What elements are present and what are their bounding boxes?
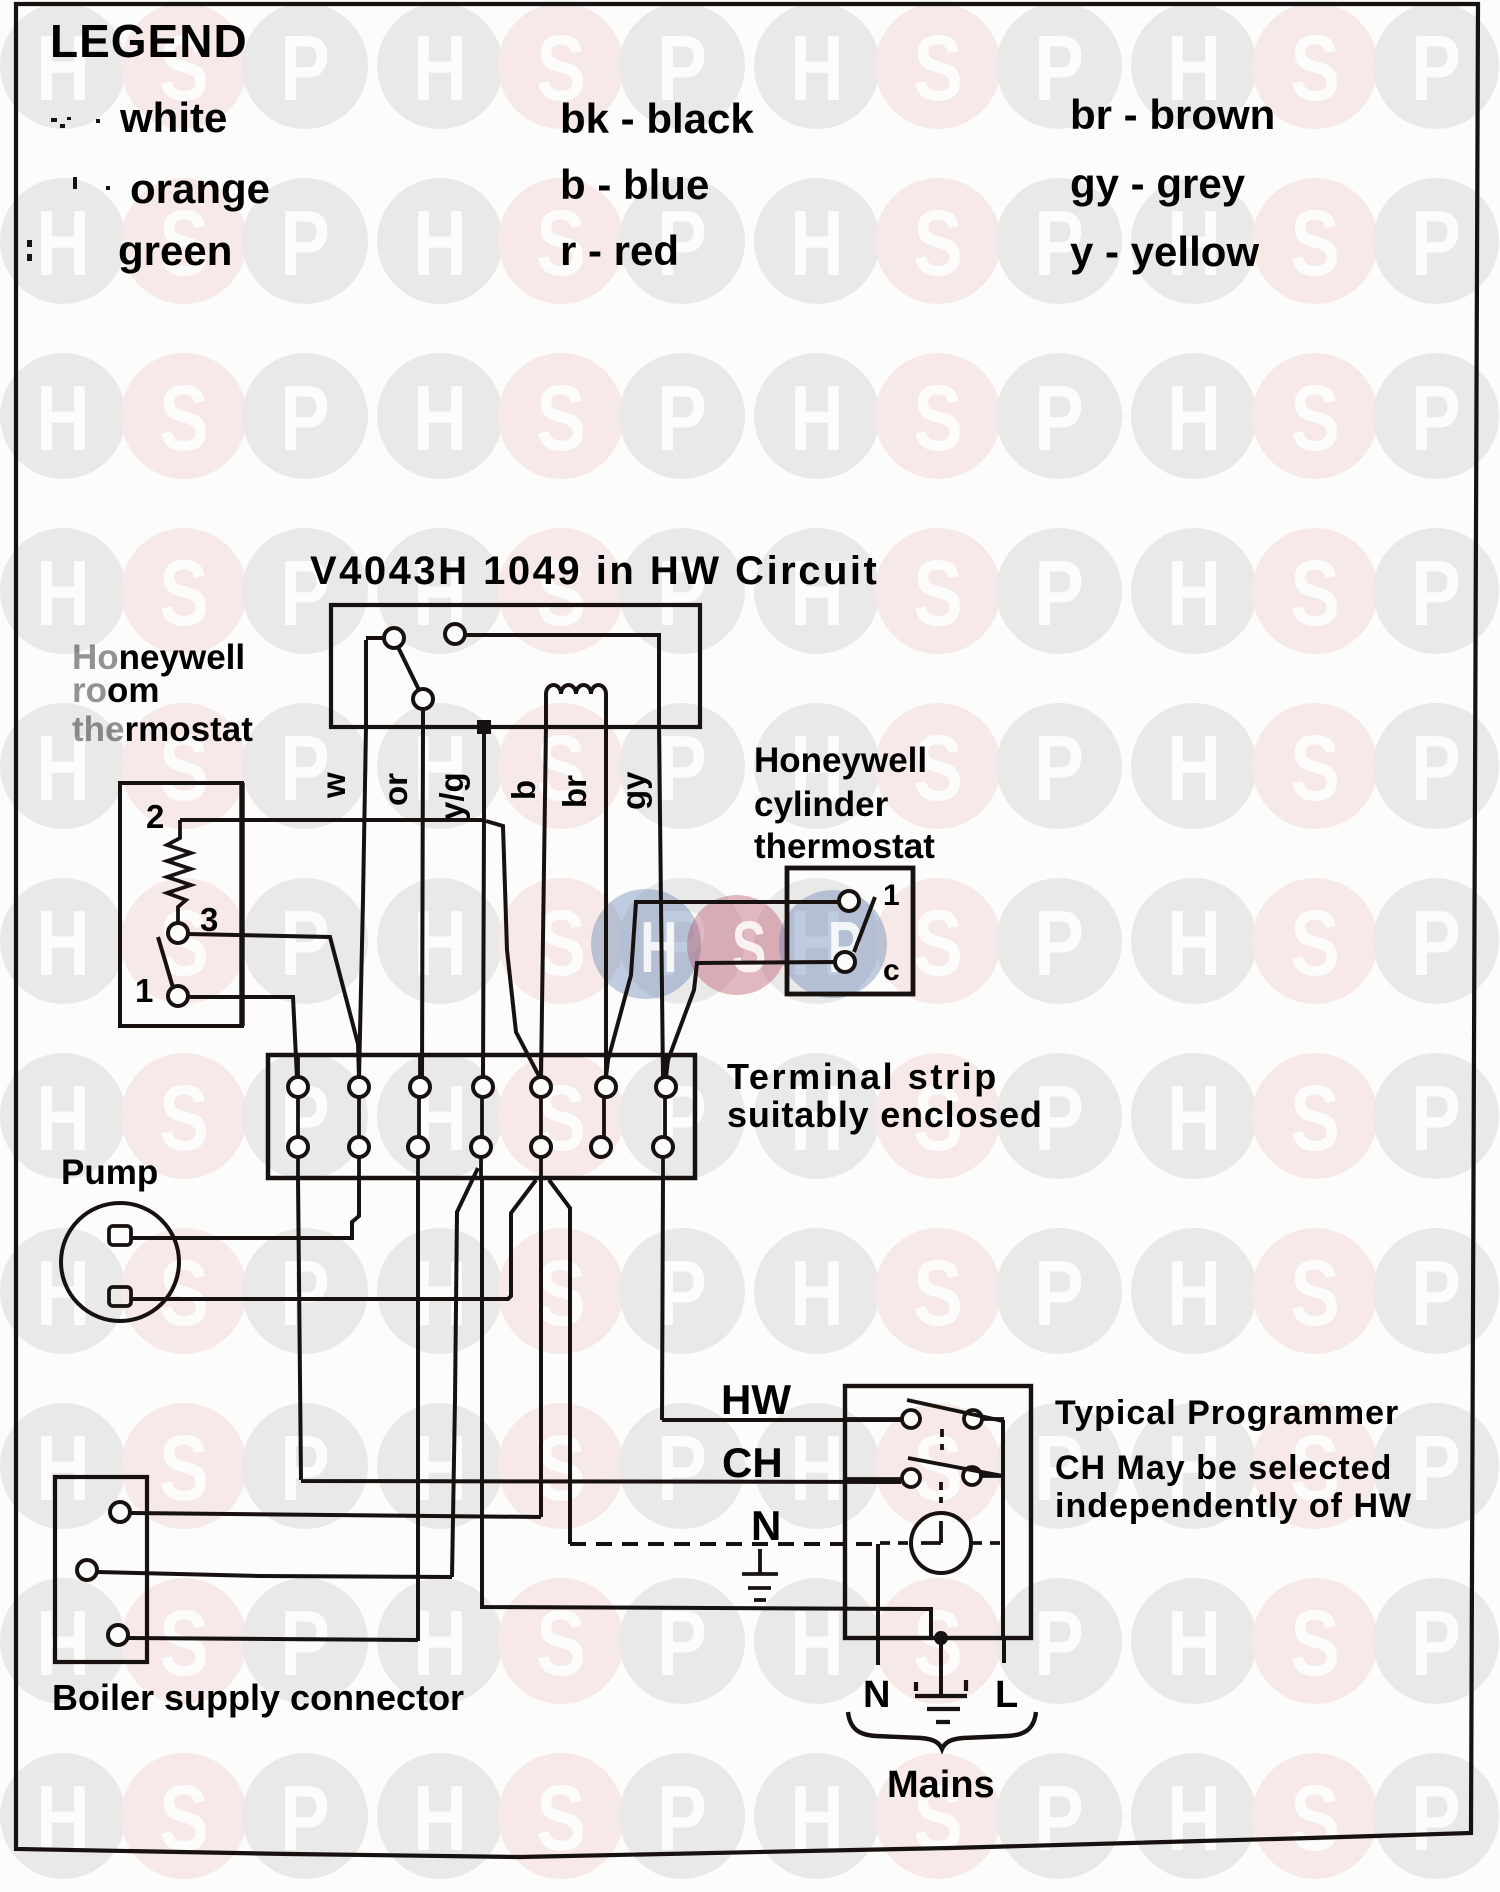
svg-text:gy: gy [615, 771, 652, 810]
programmer right rail [1001, 1420, 1005, 1638]
cyl stat terminal 1 [839, 891, 859, 911]
programmer clock [911, 1513, 971, 1573]
HW switch leads [845, 1417, 1004, 1421]
room thermostat box [120, 783, 242, 1026]
wire jog to terminal 5 [486, 821, 539, 1076]
pump body [61, 1203, 179, 1321]
boiler terminal top [110, 1502, 130, 1522]
valve aux terminal [445, 624, 465, 644]
wire terminal 3 to boiler bottom [128, 1178, 418, 1641]
wire 1 to terminal 1 [188, 997, 297, 1078]
svg-text:V4043H 1049 in HW Circuit: V4043H 1049 in HW Circuit [310, 549, 879, 593]
junction dot [934, 1631, 948, 1645]
svg-text:LEGEND: LEGEND [50, 15, 248, 67]
svg-text:Terminal strip: Terminal strip [727, 1056, 999, 1097]
svg-text:room: room [72, 671, 160, 710]
wire terminal 4 diagonal to boiler middle [97, 1168, 478, 1577]
resistor element [167, 820, 191, 923]
svg-text:N: N [863, 1674, 890, 1716]
svg-text:2: 2 [146, 798, 164, 835]
svg-text:Boiler supply connector: Boiler supply connector [52, 1677, 464, 1718]
wire aux to right [465, 635, 659, 727]
wire cyl 1 to terminal 6 [606, 902, 839, 1077]
junction node on valve box [477, 720, 491, 734]
svg-text:b: b [505, 780, 542, 800]
programmer link dashes [941, 1429, 942, 1503]
svg-text:white: white [119, 94, 227, 141]
wire y/g [483, 727, 484, 1078]
svg-text:thermostat: thermostat [72, 710, 253, 749]
svg-text:y/g: y/g [433, 772, 470, 820]
svg-text:Typical Programmer: Typical Programmer [1055, 1394, 1399, 1432]
wire earth y/g run to programmer [482, 1178, 931, 1638]
svg-text:suitably enclosed: suitably enclosed [727, 1094, 1043, 1135]
svg-text:1: 1 [135, 972, 153, 1009]
cylinder thermostat box [787, 868, 913, 994]
wire cyl c to terminal 7 [666, 962, 835, 1077]
programmer box [845, 1386, 1031, 1638]
cyl stat arm [854, 897, 875, 952]
svg-text:CH May be selected: CH May be selected [1055, 1449, 1392, 1487]
svg-text:Honeywell: Honeywell [754, 741, 927, 780]
svg-text:L: L [995, 1674, 1018, 1716]
valve motor coil [546, 685, 606, 727]
boiler supply connector box [55, 1477, 147, 1662]
svg-text:N: N [751, 1502, 781, 1549]
wire br [604, 727, 608, 1078]
room stat switch arm [158, 937, 174, 991]
pump terminal top [109, 1226, 131, 1245]
earth pigtail [939, 1638, 943, 1696]
wire pivot lead [366, 636, 384, 640]
terminal stubs bottom [298, 1157, 663, 1178]
svg-text:or: or [377, 773, 414, 806]
svg-text:w: w [315, 772, 352, 799]
terminal circles bottom row [288, 1137, 673, 1157]
wire gy [659, 727, 663, 1078]
valve moving contact [413, 689, 433, 709]
boiler terminal middle [77, 1560, 97, 1580]
clock dashes [880, 1541, 1002, 1545]
valve switch arm [398, 647, 419, 690]
wire terminal 1 to CH [298, 1178, 901, 1482]
svg-text:c: c [883, 954, 900, 987]
svg-text:Mains: Mains [887, 1764, 995, 1806]
room stat contact 1 [168, 986, 188, 1006]
wire N terminal 5 to programmer [549, 1180, 570, 1544]
svg-text:bk - black: bk - black [560, 95, 754, 142]
mains earth symbol [915, 1680, 967, 1722]
cyl stat terminal c [835, 952, 855, 972]
wire N drop to mains [876, 1544, 880, 1665]
svg-text:1: 1 [883, 879, 900, 912]
CH switch leads [845, 1476, 1004, 1479]
wire pump top to terminal 2 [131, 1178, 359, 1238]
terminal strip box [268, 1055, 695, 1178]
HW switch arm [907, 1400, 1003, 1421]
wire room stat 2 to y/g [180, 818, 484, 822]
svg-text:S: S [732, 908, 767, 988]
svg-text:green: green [118, 227, 232, 274]
pump terminal bottom [109, 1287, 131, 1306]
valve switch pivot terminal [384, 628, 404, 648]
terminal column links [298, 1097, 665, 1137]
boiler terminal bottom [108, 1625, 128, 1645]
svg-text:thermostat: thermostat [754, 827, 935, 866]
L pigtail [1002, 1638, 1006, 1663]
wire terminal 7 to HW [662, 1178, 901, 1420]
CH switch contacts [902, 1469, 920, 1487]
wire pump bottom to terminal 5 [131, 1180, 536, 1299]
room stat contact 3 [168, 923, 188, 943]
wire b [541, 727, 546, 1078]
svg-text:br: br [556, 775, 593, 808]
terminal stubs top [298, 1055, 666, 1077]
mains brace [848, 1712, 1036, 1749]
HW switch contacts [902, 1410, 920, 1428]
svg-text:br - brown: br - brown [1070, 91, 1275, 138]
wire w [359, 640, 366, 1078]
svg-text:b - blue: b - blue [560, 161, 709, 208]
earth wire label symbol [742, 1549, 778, 1600]
svg-text:HW: HW [721, 1376, 791, 1423]
wire or [422, 709, 423, 1078]
motorised valve box V4043H [331, 605, 700, 727]
svg-text:independently of HW: independently of HW [1055, 1487, 1412, 1525]
wire terminal 5 to boiler top [131, 1178, 541, 1517]
svg-text:cylinder: cylinder [754, 785, 889, 824]
terminal circles top row [288, 1077, 676, 1097]
svg-text:r - red: r - red [560, 227, 679, 274]
svg-text:y - yellow: y - yellow [1070, 228, 1259, 275]
svg-text:H: H [640, 908, 677, 988]
svg-text:orange: orange [130, 165, 270, 212]
svg-text:gy - grey: gy - grey [1070, 160, 1246, 207]
wire 3 to terminal 2 [188, 934, 359, 1078]
CH switch arm [908, 1458, 1003, 1476]
svg-text:CH: CH [722, 1439, 783, 1486]
legend col1 faded markers [27, 117, 110, 261]
svg-text:Pump: Pump [61, 1153, 158, 1192]
